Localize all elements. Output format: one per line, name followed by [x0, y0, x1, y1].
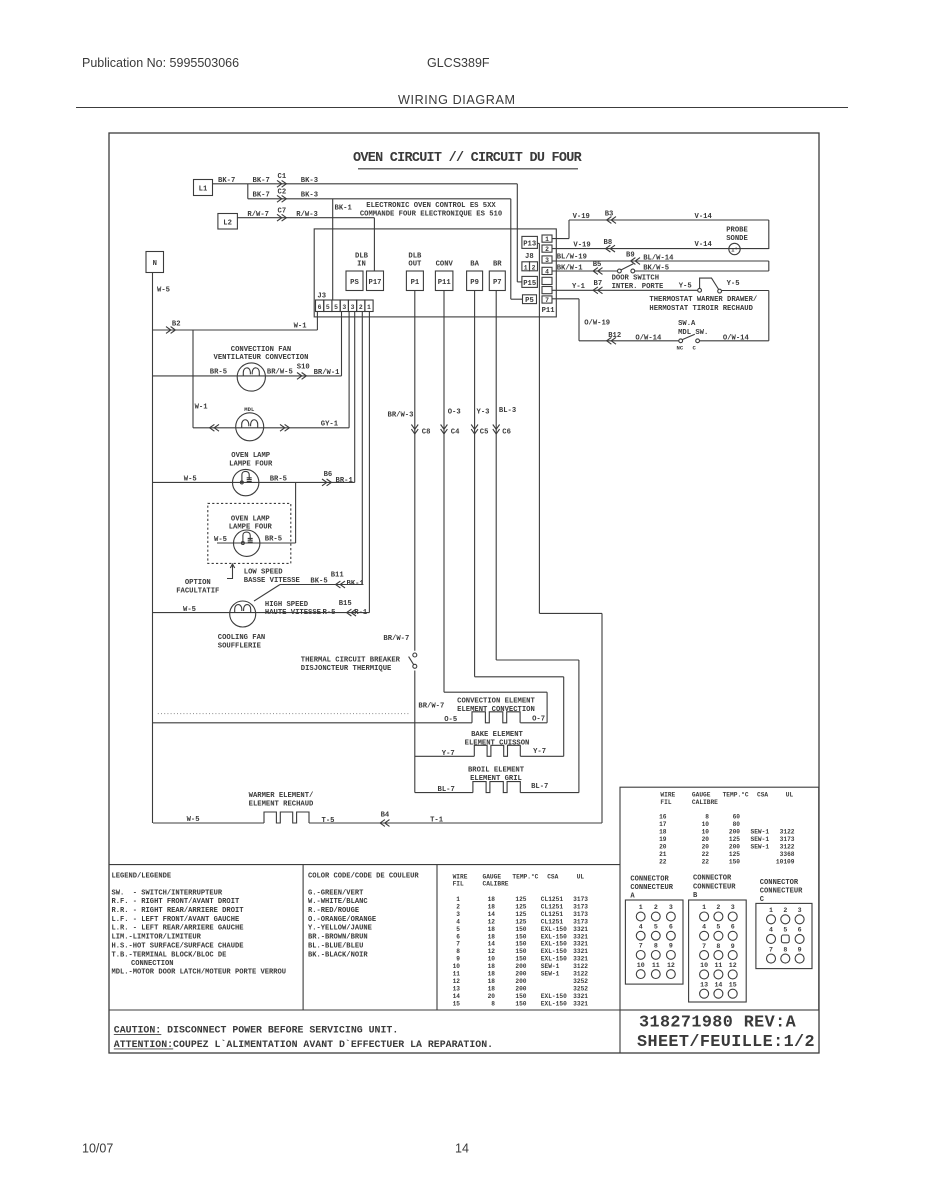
svg-text:BL-3: BL-3	[499, 407, 516, 415]
svg-text:B6: B6	[324, 471, 333, 479]
svg-text:COLOR CODE/CODE DE COULEUR: COLOR CODE/CODE DE COULEUR	[308, 872, 419, 880]
svg-text:O/W-14: O/W-14	[635, 334, 662, 342]
svg-text:3252: 3252	[573, 978, 588, 985]
svg-text:GAUGE: GAUGE	[692, 792, 711, 799]
svg-text:MDL SW.: MDL SW.	[678, 329, 708, 337]
svg-text:4: 4	[545, 268, 549, 275]
svg-text:R/W-3: R/W-3	[296, 211, 318, 219]
svg-text:GY-1: GY-1	[321, 420, 339, 428]
svg-text:C: C	[760, 896, 765, 904]
svg-text:18: 18	[488, 896, 496, 903]
svg-text:20: 20	[702, 844, 710, 851]
svg-text:12: 12	[488, 948, 496, 955]
svg-text:4: 4	[702, 924, 706, 931]
svg-text:CONNECTEUR: CONNECTEUR	[760, 888, 803, 896]
svg-text:4: 4	[456, 918, 460, 925]
svg-text:CONNECTOR: CONNECTOR	[630, 875, 669, 883]
svg-text:20: 20	[702, 836, 710, 843]
svg-text:BR/W-7: BR/W-7	[418, 703, 444, 711]
svg-text:9: 9	[669, 943, 673, 950]
svg-text:OVEN CIRCUIT // CIRCUIT DU FOU: OVEN CIRCUIT // CIRCUIT DU FOUR	[353, 151, 583, 166]
svg-text:125: 125	[515, 918, 526, 925]
svg-text:B9: B9	[626, 252, 635, 260]
svg-text:OVEN LAMP: OVEN LAMP	[231, 452, 271, 460]
svg-text:11: 11	[652, 962, 660, 969]
svg-text:Y-7: Y-7	[533, 748, 546, 756]
svg-text:B11: B11	[331, 572, 345, 580]
svg-text:SHEET/FEUILLE:1/2: SHEET/FEUILLE:1/2	[637, 1033, 815, 1052]
svg-text:3122: 3122	[780, 844, 795, 851]
svg-text:R.F. - RIGHT FRONT/AVANT DROIT: R.F. - RIGHT FRONT/AVANT DROIT	[112, 898, 240, 906]
svg-text:3321: 3321	[573, 1000, 588, 1007]
svg-text:14: 14	[488, 911, 496, 918]
svg-text:W-5: W-5	[184, 475, 197, 483]
svg-text:CAUTION: DISCONNECT POWER BEFO: CAUTION: DISCONNECT POWER BEFORE SERVICI…	[114, 1025, 398, 1036]
svg-text:ELEMENT RECHAUD: ELEMENT RECHAUD	[249, 800, 314, 808]
svg-text:318271980 REV:A: 318271980 REV:A	[639, 1013, 797, 1032]
svg-text:4: 4	[769, 927, 773, 934]
svg-text:18: 18	[488, 903, 496, 910]
svg-text:3252: 3252	[573, 985, 588, 992]
svg-text:J3: J3	[317, 293, 326, 301]
svg-text:20: 20	[488, 993, 496, 1000]
svg-text:6: 6	[669, 923, 673, 930]
svg-text:CSA: CSA	[547, 873, 558, 880]
svg-text:2: 2	[359, 304, 363, 311]
svg-text:HAUTE VITESSE: HAUTE VITESSE	[265, 609, 322, 617]
svg-text:3321: 3321	[573, 948, 588, 955]
svg-text:EXL-150: EXL-150	[541, 933, 567, 940]
svg-text:10: 10	[488, 956, 496, 963]
svg-text:L1: L1	[199, 186, 208, 194]
svg-text:BK-7: BK-7	[253, 191, 270, 199]
svg-text:B2: B2	[172, 321, 181, 329]
svg-text:B7: B7	[594, 280, 603, 288]
svg-text:SEW-1: SEW-1	[751, 829, 770, 836]
svg-text:2: 2	[456, 903, 460, 910]
svg-text:12: 12	[729, 962, 737, 969]
svg-text:V-19: V-19	[573, 242, 590, 250]
svg-text:2: 2	[532, 264, 536, 271]
svg-text:17: 17	[659, 821, 667, 828]
svg-text:BR-5: BR-5	[210, 369, 227, 377]
svg-text:3173: 3173	[573, 918, 588, 925]
svg-text:1: 1	[367, 304, 371, 311]
svg-text:3321: 3321	[573, 993, 588, 1000]
svg-text:1°: 1°	[731, 247, 738, 254]
svg-text:125: 125	[515, 896, 526, 903]
svg-text:3: 3	[342, 304, 346, 311]
svg-text:P13: P13	[523, 241, 536, 249]
svg-text:N: N	[153, 260, 157, 268]
svg-text:3: 3	[731, 904, 735, 911]
svg-text:BA: BA	[470, 261, 479, 269]
svg-text:B3: B3	[605, 211, 614, 219]
svg-text:7: 7	[456, 941, 460, 948]
svg-text:BK-1: BK-1	[335, 205, 353, 213]
svg-text:BK-7: BK-7	[253, 177, 270, 185]
svg-text:8: 8	[705, 814, 709, 821]
svg-text:PS: PS	[350, 279, 359, 287]
svg-text:BR/W-7: BR/W-7	[383, 635, 409, 643]
svg-text:CONVECTION FAN: CONVECTION FAN	[231, 346, 291, 354]
svg-text:14: 14	[488, 941, 496, 948]
svg-text:200: 200	[729, 829, 740, 836]
svg-text:FIL: FIL	[660, 799, 671, 806]
svg-text:CL1251: CL1251	[541, 896, 564, 903]
svg-text:O-3: O-3	[448, 408, 461, 416]
svg-text:OUT: OUT	[408, 261, 422, 269]
svg-text:VENTILATEUR CONVECTION: VENTILATEUR CONVECTION	[214, 354, 309, 362]
svg-text:LAMPE FOUR: LAMPE FOUR	[229, 524, 273, 532]
svg-text:ELEMENT GRIL: ELEMENT GRIL	[470, 775, 522, 783]
svg-text:P17: P17	[369, 279, 382, 287]
svg-text:Y-5: Y-5	[727, 280, 740, 288]
svg-text:12: 12	[667, 962, 675, 969]
svg-text:4: 4	[639, 923, 643, 930]
svg-text:7: 7	[702, 943, 706, 950]
svg-text:7: 7	[545, 297, 549, 304]
svg-text:3: 3	[351, 304, 355, 311]
svg-text:V-14: V-14	[695, 213, 713, 221]
svg-text:EXL-150: EXL-150	[541, 956, 567, 963]
svg-text:MDL.-MOTOR DOOR LATCH/MOTEUR P: MDL.-MOTOR DOOR LATCH/MOTEUR PORTE VERRO…	[112, 969, 287, 977]
svg-text:200: 200	[515, 963, 526, 970]
svg-text:150: 150	[729, 859, 740, 866]
svg-text:DISJONCTEUR THERMIQUE: DISJONCTEUR THERMIQUE	[301, 665, 392, 673]
svg-text:H.S.-HOT SURFACE/SURFACE CHAUD: H.S.-HOT SURFACE/SURFACE CHAUDE	[112, 942, 244, 950]
svg-text:8: 8	[491, 1000, 495, 1007]
svg-text:18: 18	[488, 978, 496, 985]
svg-text:150: 150	[515, 948, 526, 955]
svg-text:14: 14	[714, 981, 722, 988]
svg-text:SONDE: SONDE	[726, 235, 748, 243]
svg-text:Y.-YELLOW/JAUNE: Y.-YELLOW/JAUNE	[308, 925, 372, 933]
svg-text:150: 150	[515, 941, 526, 948]
svg-text:1: 1	[702, 904, 706, 911]
svg-text:3: 3	[669, 904, 673, 911]
svg-text:125: 125	[515, 903, 526, 910]
svg-text:B15: B15	[339, 600, 352, 608]
svg-text:18: 18	[488, 963, 496, 970]
svg-text:BK/W-1: BK/W-1	[557, 264, 584, 272]
svg-text:5: 5	[716, 924, 720, 931]
svg-text:3368: 3368	[780, 851, 795, 858]
svg-text:UL: UL	[577, 873, 585, 880]
svg-text:14: 14	[453, 993, 461, 1000]
svg-text:HERMOSTAT TIROIR RECHAUD: HERMOSTAT TIROIR RECHAUD	[649, 305, 753, 313]
svg-text:R/W-7: R/W-7	[247, 211, 269, 219]
svg-text:BL/W-19: BL/W-19	[557, 254, 587, 262]
svg-text:EXL-150: EXL-150	[541, 948, 567, 955]
svg-text:CL1251: CL1251	[541, 911, 564, 918]
svg-text:W-5: W-5	[214, 536, 227, 544]
svg-text:C5: C5	[480, 428, 489, 436]
svg-text:9: 9	[731, 943, 735, 950]
svg-text:16: 16	[659, 814, 667, 821]
svg-text:BR: BR	[493, 261, 502, 269]
svg-text:3321: 3321	[573, 941, 588, 948]
svg-text:BL/W-14: BL/W-14	[643, 254, 674, 262]
svg-text:14: 14	[455, 1142, 469, 1156]
svg-text:O/W-14: O/W-14	[723, 334, 750, 342]
svg-text:CALIBRE: CALIBRE	[692, 799, 718, 806]
svg-text:SW. - SWITCH/INTERRUPTEUR: SW. - SWITCH/INTERRUPTEUR	[112, 889, 223, 897]
svg-text:W-1: W-1	[195, 403, 209, 411]
svg-text:19: 19	[659, 836, 667, 843]
svg-text:18: 18	[488, 926, 496, 933]
svg-text:P1: P1	[411, 279, 420, 287]
svg-text:SW.A: SW.A	[678, 320, 696, 328]
svg-text:P7: P7	[493, 279, 502, 287]
svg-text:COOLING FAN: COOLING FAN	[218, 634, 265, 642]
svg-text:SEW-1: SEW-1	[541, 971, 560, 978]
svg-text:12: 12	[488, 918, 496, 925]
svg-text:BK-7: BK-7	[218, 177, 235, 185]
svg-text:G.-GREEN/VERT: G.-GREEN/VERT	[308, 889, 364, 897]
svg-text:CONNECTOR: CONNECTOR	[760, 879, 799, 887]
svg-text:9: 9	[456, 956, 460, 963]
svg-text:5: 5	[456, 926, 460, 933]
svg-text:CONNECTOR: CONNECTOR	[693, 875, 732, 883]
svg-text:2: 2	[716, 904, 720, 911]
svg-text:1: 1	[769, 907, 773, 914]
svg-text:125: 125	[729, 851, 740, 858]
svg-text:TEMP.°C: TEMP.°C	[723, 792, 749, 799]
svg-text:CONNECTION: CONNECTION	[131, 960, 174, 968]
svg-text:6: 6	[798, 927, 802, 934]
svg-text:SEW-1: SEW-1	[751, 844, 770, 851]
svg-text:BR-5: BR-5	[265, 536, 282, 544]
svg-text:WIRE: WIRE	[660, 792, 675, 799]
svg-text:C4: C4	[451, 428, 460, 436]
svg-text:UL: UL	[786, 792, 794, 799]
svg-text:3: 3	[798, 907, 802, 914]
svg-text:ELECTRONIC OVEN CONTROL ES 5XX: ELECTRONIC OVEN CONTROL ES 5XX	[366, 202, 496, 210]
svg-text:P15: P15	[523, 280, 536, 288]
svg-text:10: 10	[700, 962, 708, 969]
svg-text:2: 2	[783, 907, 787, 914]
svg-text:BR/W-3: BR/W-3	[388, 412, 414, 420]
svg-text:PROBE: PROBE	[726, 227, 748, 235]
svg-text:THERMAL CIRCUIT BREAKER: THERMAL CIRCUIT BREAKER	[301, 657, 401, 665]
svg-text:O/W-19: O/W-19	[584, 320, 610, 328]
svg-text:S10: S10	[297, 364, 310, 372]
svg-text:3173: 3173	[573, 903, 588, 910]
svg-text:INTER. PORTE: INTER. PORTE	[612, 283, 664, 291]
svg-text:22: 22	[702, 851, 710, 858]
svg-text:10/07: 10/07	[82, 1142, 113, 1156]
svg-text:10109: 10109	[776, 859, 795, 866]
svg-text:HIGH SPEED: HIGH SPEED	[265, 601, 309, 609]
svg-text:7: 7	[639, 943, 643, 950]
svg-text:10: 10	[702, 829, 710, 836]
svg-text:CSA: CSA	[757, 792, 768, 799]
svg-text:COMMANDE FOUR ELECTRONIQUE ES: COMMANDE FOUR ELECTRONIQUE ES 510	[360, 211, 502, 219]
svg-text:O-7: O-7	[532, 715, 545, 723]
svg-text:200: 200	[515, 978, 526, 985]
svg-text:2: 2	[654, 904, 658, 911]
svg-text:WIRING DIAGRAM: WIRING DIAGRAM	[398, 93, 516, 107]
svg-text:BR-5: BR-5	[270, 475, 287, 483]
svg-text:5: 5	[334, 304, 338, 311]
svg-text:1: 1	[545, 236, 549, 243]
svg-text:5: 5	[783, 927, 787, 934]
svg-text:BASSE VITESSE: BASSE VITESSE	[244, 577, 301, 585]
svg-text:T-5: T-5	[322, 817, 335, 825]
svg-text:CONNECTEUR: CONNECTEUR	[630, 884, 673, 892]
svg-text:O.-ORANGE/ORANGE: O.-ORANGE/ORANGE	[308, 916, 376, 924]
svg-text:18: 18	[488, 985, 496, 992]
svg-text:BK-3: BK-3	[301, 191, 318, 199]
svg-text:9: 9	[798, 946, 802, 953]
svg-text:11: 11	[714, 962, 722, 969]
svg-text:150: 150	[515, 933, 526, 940]
svg-text:CL1251: CL1251	[541, 903, 564, 910]
svg-text:J8: J8	[525, 253, 534, 261]
svg-text:R.-RED/ROUGE: R.-RED/ROUGE	[308, 907, 359, 915]
svg-text:BK-3: BK-3	[301, 177, 318, 185]
svg-text:3173: 3173	[780, 836, 795, 843]
svg-text:22: 22	[659, 859, 667, 866]
svg-text:ELEMENT CONVECTION: ELEMENT CONVECTION	[457, 706, 535, 714]
svg-text:EXL-150: EXL-150	[541, 993, 567, 1000]
svg-text:B4: B4	[381, 811, 390, 819]
svg-text:LAMPE FOUR: LAMPE FOUR	[229, 460, 273, 468]
svg-text:7: 7	[769, 946, 773, 953]
svg-text:L.F. - LEFT FRONT/AVANT GAUCHE: L.F. - LEFT FRONT/AVANT GAUCHE	[112, 916, 240, 924]
svg-text:C6: C6	[502, 428, 511, 436]
svg-text:EXL-150: EXL-150	[541, 1000, 567, 1007]
svg-text:FACULTATIF: FACULTATIF	[176, 587, 219, 595]
svg-text:DOOR SWITCH: DOOR SWITCH	[612, 274, 659, 282]
svg-text:BR/W-1: BR/W-1	[314, 369, 341, 377]
svg-text:1: 1	[524, 264, 528, 271]
svg-text:3: 3	[545, 257, 549, 264]
svg-text:13: 13	[700, 981, 708, 988]
svg-text:10: 10	[702, 821, 710, 828]
svg-text:P9: P9	[470, 279, 479, 287]
svg-text:200: 200	[729, 844, 740, 851]
svg-text:6: 6	[456, 933, 460, 940]
svg-text:OPTION: OPTION	[185, 579, 211, 587]
svg-text:W-5: W-5	[187, 816, 200, 824]
svg-text:FIL: FIL	[453, 881, 464, 888]
svg-text:80: 80	[733, 821, 741, 828]
svg-text:C2: C2	[278, 189, 287, 197]
svg-text:R.R. - RIGHT REAR/ARRIERE DROI: R.R. - RIGHT REAR/ARRIERE DROIT	[112, 907, 245, 915]
svg-text:R-1: R-1	[354, 609, 368, 617]
svg-text:LIM.-LIMITOR/LIMITEUR: LIM.-LIMITOR/LIMITEUR	[112, 934, 202, 942]
svg-text:WIRE: WIRE	[453, 873, 468, 880]
svg-text:P5: P5	[525, 297, 534, 305]
svg-text:TEMP.°C: TEMP.°C	[512, 873, 538, 880]
svg-text:BROIL ELEMENT: BROIL ELEMENT	[468, 767, 525, 775]
svg-text:3321: 3321	[573, 956, 588, 963]
svg-text:C1: C1	[278, 173, 287, 181]
svg-text:150: 150	[515, 993, 526, 1000]
svg-text:125: 125	[729, 836, 740, 843]
svg-text:150: 150	[515, 1000, 526, 1007]
svg-text:CONNECTEUR: CONNECTEUR	[693, 883, 736, 891]
svg-text:125: 125	[515, 911, 526, 918]
svg-text:1: 1	[456, 896, 460, 903]
svg-text:T-1: T-1	[430, 816, 444, 824]
svg-text:BR.-BROWN/BRUN: BR.-BROWN/BRUN	[308, 934, 368, 942]
svg-text:V-14: V-14	[695, 241, 713, 249]
svg-text:C8: C8	[422, 428, 431, 436]
svg-text:3173: 3173	[573, 896, 588, 903]
svg-text:MDL: MDL	[244, 406, 255, 413]
svg-text:GAUGE: GAUGE	[483, 873, 502, 880]
svg-text:BR/W-5: BR/W-5	[267, 368, 293, 376]
svg-text:SEW-1: SEW-1	[751, 836, 770, 843]
svg-text:18: 18	[659, 829, 667, 836]
svg-text:CL1251: CL1251	[541, 918, 564, 925]
svg-text:3321: 3321	[573, 933, 588, 940]
svg-text:Y-7: Y-7	[442, 750, 455, 758]
svg-text:WARMER ELEMENT/: WARMER ELEMENT/	[249, 792, 314, 800]
svg-text:3: 3	[456, 911, 460, 918]
svg-text:NC: NC	[677, 345, 684, 352]
svg-text:CONV: CONV	[436, 261, 454, 269]
svg-text:T.B.-TERMINAL BLOCK/BLOC DE: T.B.-TERMINAL BLOCK/BLOC DE	[112, 951, 227, 959]
svg-text:R-5: R-5	[323, 609, 336, 617]
svg-text:L.R. - LEFT REAR/ARRIERE GAUCH: L.R. - LEFT REAR/ARRIERE GAUCHE	[112, 925, 244, 933]
svg-text:Y-5: Y-5	[679, 282, 692, 290]
svg-text:IN: IN	[357, 261, 366, 269]
svg-text:6: 6	[731, 924, 735, 931]
svg-text:W-5: W-5	[157, 287, 170, 295]
svg-text:10: 10	[637, 962, 645, 969]
svg-text:1: 1	[639, 904, 643, 911]
svg-text:SEW-1: SEW-1	[541, 963, 560, 970]
svg-text:22: 22	[702, 859, 710, 866]
svg-text:B: B	[693, 892, 698, 900]
svg-text:BL-7: BL-7	[531, 783, 548, 791]
svg-text:Publication No: 5995503066: Publication No: 5995503066	[82, 56, 239, 70]
svg-text:W-1: W-1	[294, 323, 308, 331]
svg-text:DLB: DLB	[408, 253, 422, 261]
svg-text:THERMOSTAT WARNER DRAWER/: THERMOSTAT WARNER DRAWER/	[649, 296, 757, 304]
svg-text:ATTENTION:COUPEZ L`ALIMENTATIO: ATTENTION:COUPEZ L`ALIMENTATION AVANT D`…	[114, 1039, 493, 1050]
svg-text:5: 5	[654, 923, 658, 930]
svg-text:B8: B8	[604, 239, 613, 247]
svg-text:BR-1: BR-1	[336, 477, 354, 485]
svg-text:L2: L2	[223, 220, 232, 228]
svg-text:BL-7: BL-7	[438, 786, 455, 794]
svg-text:Y-1: Y-1	[572, 283, 586, 291]
svg-text:C: C	[693, 345, 697, 352]
svg-text:P11: P11	[438, 279, 452, 287]
svg-text:EXL-150: EXL-150	[541, 941, 567, 948]
svg-text:B5: B5	[593, 261, 602, 269]
svg-text:15: 15	[729, 981, 737, 988]
svg-text:BK-1: BK-1	[347, 580, 365, 588]
svg-text:LEGEND/LEGENDE: LEGEND/LEGENDE	[112, 872, 172, 880]
svg-text:W.-WHITE/BLANC: W.-WHITE/BLANC	[308, 898, 368, 906]
svg-text:6: 6	[318, 304, 322, 311]
svg-text:SOUFFLERIE: SOUFFLERIE	[218, 643, 262, 651]
svg-text:O-5: O-5	[444, 716, 457, 724]
svg-text:8: 8	[716, 943, 720, 950]
svg-text:LOW SPEED: LOW SPEED	[244, 569, 284, 577]
svg-text:BAKE ELEMENT: BAKE ELEMENT	[471, 731, 523, 739]
svg-text:8: 8	[654, 943, 658, 950]
svg-text:200: 200	[515, 985, 526, 992]
svg-text:200: 200	[515, 971, 526, 978]
svg-text:V-19: V-19	[573, 213, 590, 221]
